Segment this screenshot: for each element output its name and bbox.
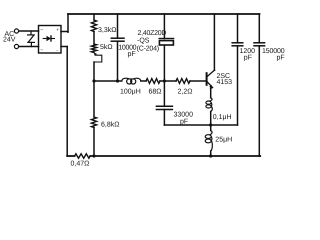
terminal AC bottom	[14, 44, 18, 48]
wire AC bottom lead	[19, 46, 39, 48]
svg-text:+: +	[56, 27, 59, 32]
label crystal part	[137, 30, 167, 53]
wire R68 to node	[160, 80, 164, 82]
wire pot to row node	[93, 62, 95, 81]
node junction emitter-feedback	[209, 123, 212, 126]
capacitor 150000pF	[254, 43, 265, 46]
crystal resonator 2.40Z20D	[159, 39, 173, 46]
svg-text:~: ~	[40, 48, 43, 54]
svg-text:33000: 33000	[174, 112, 194, 119]
inductor 25uH	[205, 131, 212, 152]
resistor 3.3k	[91, 20, 96, 32]
inductor 100uH	[122, 78, 141, 84]
resistor 0.47 ohm	[75, 154, 91, 158]
wire R2.2 to base	[190, 80, 206, 82]
label 33000 pF	[174, 112, 194, 126]
svg-text:pF: pF	[128, 51, 136, 58]
svg-text:-QS: -QS	[137, 38, 150, 45]
svg-text:0,1μH: 0,1μH	[213, 114, 232, 121]
node junction row-left	[92, 79, 95, 82]
wire bridge plus output riser	[61, 14, 68, 32]
svg-text:3,3kΩ: 3,3kΩ	[98, 26, 116, 34]
wire row to C 33000pF	[163, 81, 165, 106]
wire 0.1uH to node	[210, 112, 212, 126]
svg-text:68Ω: 68Ω	[149, 89, 162, 96]
svg-text:pF: pF	[244, 55, 252, 62]
wire top rail to R 3.3k	[93, 14, 95, 20]
label 6.8k	[101, 121, 119, 129]
svg-text:25μH: 25μH	[215, 137, 232, 144]
wire C 10000pF to row	[117, 41, 119, 81]
wire R3.3k to pot	[93, 32, 95, 45]
label AC 24V input	[3, 31, 16, 43]
svg-text:(C-204): (C-204)	[137, 45, 159, 53]
wire feedback horizontal	[164, 124, 237, 126]
wire R6.8k to ground rail	[93, 128, 95, 157]
transistor 2SC4153	[207, 70, 215, 88]
wire crystal to row	[163, 45, 165, 81]
wire AC top lead	[19, 30, 39, 32]
wire node to 25uH	[210, 125, 212, 131]
surge arrester Z across AC input	[28, 31, 35, 47]
label 100uH	[120, 89, 141, 96]
label 150000 pF	[262, 48, 285, 62]
svg-text:2,2Ω: 2,2Ω	[178, 89, 193, 96]
resistor 68 ohm	[146, 79, 160, 84]
wire 100uH to R68	[141, 80, 146, 82]
svg-text:24V: 24V	[3, 36, 16, 43]
svg-text:100μH: 100μH	[120, 89, 141, 96]
wire bottom ground rail (left segment)	[67, 155, 74, 157]
wire 25uH to ground rail	[210, 151, 212, 156]
svg-text:0,47Ω: 0,47Ω	[71, 161, 90, 168]
capacitor 33000pF	[156, 106, 172, 109]
wire C 1200pF to feedback	[237, 46, 239, 125]
terminal AC top	[14, 29, 18, 33]
wire top rail to crystal	[163, 14, 165, 39]
wire collector riser	[213, 14, 215, 70]
label 1200 pF	[240, 48, 256, 62]
label 0.47 ohm	[71, 161, 90, 168]
wire row node to R 6.8k	[93, 81, 95, 117]
resistor 6.8k	[91, 117, 96, 128]
svg-text:5kΩ: 5kΩ	[100, 43, 113, 51]
resistor 2.2 ohm	[176, 79, 190, 84]
capacitor 10000pF	[111, 38, 124, 41]
inductor 0.1uH	[206, 98, 212, 112]
label 10000 pF	[118, 45, 136, 59]
svg-text:6,8kΩ: 6,8kΩ	[101, 121, 119, 129]
label 2SC4153	[217, 73, 233, 86]
wire emitter drop	[211, 88, 212, 98]
svg-text:~: ~	[40, 27, 43, 33]
potentiometer 5k (rheostat)	[91, 44, 101, 62]
svg-text:2,40Z20D: 2,40Z20D	[138, 30, 167, 37]
wire top rail corner to C 150000pF	[258, 14, 260, 43]
node junction emitter-ground	[209, 154, 212, 157]
capacitor 1200pF	[232, 43, 243, 46]
label 2.2 ohm	[178, 89, 193, 96]
bridge rectifier module	[39, 26, 62, 54]
svg-text:pF: pF	[277, 55, 285, 62]
wire C 33000pF down	[163, 110, 165, 126]
wire bottom ground rail (right segment)	[90, 155, 260, 157]
wire C 150000pF to ground rail	[258, 46, 261, 156]
wire top supply rail	[68, 13, 260, 15]
wire row left segment	[94, 80, 122, 82]
label 68 ohm	[149, 89, 162, 96]
wire top rail to C 10000pF	[117, 14, 119, 38]
node junction row-cap	[116, 79, 119, 82]
node junction row-crystal	[163, 79, 166, 82]
label 5k	[100, 43, 113, 51]
wire node to R2.2	[164, 80, 176, 82]
label 0.1uH	[213, 114, 232, 121]
wire top rail to C 1200pF	[237, 14, 239, 43]
wire bridge minus output drop	[61, 47, 67, 157]
label 25uH	[215, 137, 232, 144]
label 3.3k	[98, 26, 116, 34]
svg-text:4153: 4153	[217, 79, 233, 86]
node junction bottom rail	[92, 154, 95, 157]
